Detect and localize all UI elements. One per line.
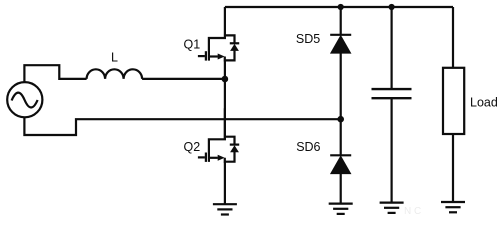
node top rail / capacitor	[389, 4, 395, 10]
svg-text:Load: Load	[470, 96, 498, 110]
wire top rail corner down to load	[452, 7, 454, 68]
inductor L	[87, 69, 143, 79]
wire SD6 anode to ground	[340, 173, 342, 204]
wire switch node column (Q1 source to Q2 drain)	[224, 60, 226, 139]
ground at SD6	[329, 204, 353, 214]
diode SD5	[330, 35, 351, 53]
wire AC neutral to diode midpoint	[24, 118, 340, 135]
node switch junction	[222, 76, 229, 83]
svg-text:Q1: Q1	[184, 37, 201, 51]
transistor Q1	[198, 7, 239, 61]
wire inductor to switch node	[142, 78, 225, 80]
wire SD5 anode to midpoint node	[340, 53, 342, 120]
wire midpoint node to SD6 cathode	[340, 119, 342, 155]
resistor Load	[443, 68, 464, 134]
svg-text:L: L	[111, 51, 118, 65]
svg-text:N C: N C	[404, 206, 421, 217]
wire AC hot terminal to inductor	[24, 65, 86, 82]
wire top rail to SD5 cathode	[340, 7, 342, 35]
svg-text:SD5: SD5	[296, 32, 320, 46]
capacitor C1	[372, 89, 412, 98]
ground at capacitor	[380, 203, 404, 213]
AC source V1	[7, 82, 42, 117]
wire load to ground	[452, 134, 454, 202]
wire capacitor to ground	[391, 98, 393, 202]
node AC neutral / diode midpoint	[337, 116, 344, 123]
wire Q2 source to ground	[224, 162, 226, 205]
wire top rail	[225, 6, 453, 8]
ground at Q2 source	[213, 204, 237, 214]
transistor Q2	[198, 108, 239, 162]
ground at load	[441, 202, 465, 212]
svg-text:SD6: SD6	[296, 140, 320, 154]
wire top rail to capacitor	[391, 7, 393, 89]
diode SD6	[330, 155, 351, 173]
svg-text:Q2: Q2	[184, 140, 201, 154]
node top rail / SD5	[338, 4, 344, 10]
